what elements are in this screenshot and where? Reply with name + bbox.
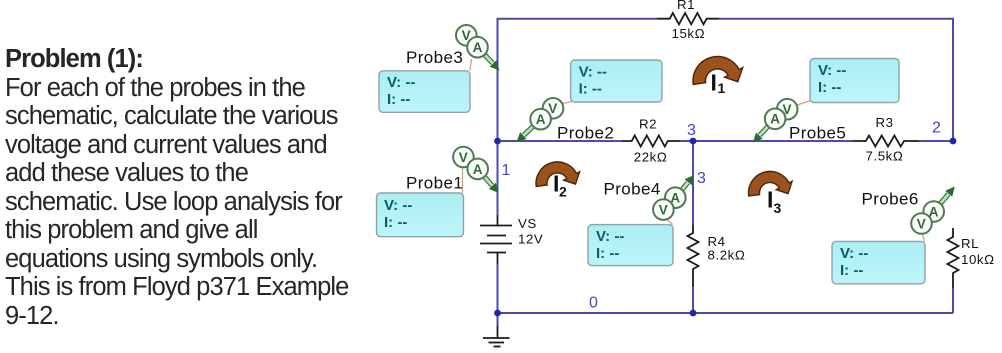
wire bottom <box>498 312 954 314</box>
svg-text:A: A <box>770 112 780 127</box>
probe Probe1 <box>406 147 499 193</box>
svg-text:2: 2 <box>932 120 941 137</box>
wire top left segment <box>498 19 658 141</box>
svg-text:1: 1 <box>502 162 511 179</box>
probe Probe3 <box>406 25 500 71</box>
probe Probe2 <box>516 98 614 143</box>
svg-text:I: --: I: -- <box>579 80 602 97</box>
probe Probe3 value box <box>379 71 470 113</box>
probe Probe6 value box <box>832 241 925 283</box>
probe Probe1 value box <box>377 193 464 237</box>
wire left vertical lower <box>497 264 499 326</box>
probe Probe4 value box <box>588 225 673 266</box>
wire center vertical lower <box>692 287 694 313</box>
svg-text:V: --: V: -- <box>387 74 415 91</box>
svg-text:A: A <box>536 112 546 127</box>
svg-text:2: 2 <box>559 184 567 200</box>
svg-text:3: 3 <box>774 200 782 216</box>
svg-text:V: V <box>917 216 926 231</box>
svg-text:12V: 12V <box>518 232 543 247</box>
svg-text:I: --: I: -- <box>387 91 410 108</box>
svg-text:V: --: V: -- <box>596 228 624 245</box>
svg-text:A: A <box>473 40 483 55</box>
probe Probe5 value box <box>810 59 899 103</box>
svg-text:15kΩ: 15kΩ <box>672 26 706 41</box>
svg-text:I: --: I: -- <box>596 245 619 262</box>
probe Probe2 value box <box>571 60 662 102</box>
svg-text:3: 3 <box>697 170 706 187</box>
wire middle right (R3 to node2) <box>919 140 953 142</box>
wire right vertical lower <box>952 288 954 313</box>
junction bottom middle <box>690 310 697 317</box>
resistor R2 <box>622 117 680 165</box>
svg-text:Probe2: Probe2 <box>557 124 614 143</box>
svg-text:0: 0 <box>589 295 598 312</box>
svg-text:RL: RL <box>961 236 979 251</box>
svg-text:3: 3 <box>687 122 696 139</box>
loop arrow I1 <box>693 56 743 84</box>
resistor R1 <box>657 0 719 41</box>
svg-text:Probe4: Probe4 <box>604 180 661 199</box>
loop arrow I3 <box>748 171 792 196</box>
junction node 2 <box>950 138 957 145</box>
svg-text:I: --: I: -- <box>818 79 841 96</box>
svg-text:I: I <box>711 70 717 96</box>
svg-text:7.5kΩ: 7.5kΩ <box>866 149 904 164</box>
wire left vertical upper (node1 to battery) <box>497 141 499 215</box>
svg-text:Probe6: Probe6 <box>862 190 919 209</box>
svg-text:8.2kΩ: 8.2kΩ <box>708 248 746 263</box>
junction ground <box>494 310 501 317</box>
svg-text:V: --: V: -- <box>840 245 868 262</box>
svg-text:A: A <box>473 162 483 177</box>
svg-text:R3: R3 <box>876 115 894 130</box>
svg-text:Probe5: Probe5 <box>789 124 846 143</box>
probe Probe5 <box>753 99 846 143</box>
junction node 1 <box>494 138 501 145</box>
loop arrow I2 <box>536 162 580 187</box>
resistor RL <box>948 228 995 288</box>
wire top right segment <box>719 19 953 141</box>
svg-text:I: --: I: -- <box>384 214 407 231</box>
battery VS <box>480 215 543 264</box>
svg-text:V: --: V: -- <box>579 63 607 80</box>
svg-text:22kΩ: 22kΩ <box>634 150 668 165</box>
probe Probe4 <box>604 175 695 225</box>
svg-text:10kΩ: 10kΩ <box>961 252 995 267</box>
wire center vertical upper (node3 to R4) <box>692 141 694 225</box>
svg-text:V: V <box>459 150 468 165</box>
svg-text:I: --: I: -- <box>840 262 863 279</box>
svg-text:Probe3: Probe3 <box>406 48 463 67</box>
resistor R4 <box>688 225 746 288</box>
ground <box>483 326 510 347</box>
svg-text:V: --: V: -- <box>818 62 846 79</box>
svg-text:R2: R2 <box>639 117 657 132</box>
junction node 3 <box>690 138 697 145</box>
svg-text:I: I <box>767 186 773 212</box>
svg-text:1: 1 <box>718 80 726 96</box>
wire middle (R2 to node3 to R3) <box>680 140 853 142</box>
svg-text:R1: R1 <box>677 0 695 12</box>
resistor R3 <box>853 115 919 164</box>
probe Probe6 <box>862 187 955 242</box>
svg-text:V: --: V: -- <box>384 197 412 214</box>
svg-text:V: V <box>659 203 668 218</box>
wire middle left (node1 to R2) <box>498 140 623 142</box>
svg-text:Probe1: Probe1 <box>406 174 463 193</box>
svg-text:VS: VS <box>518 216 537 231</box>
